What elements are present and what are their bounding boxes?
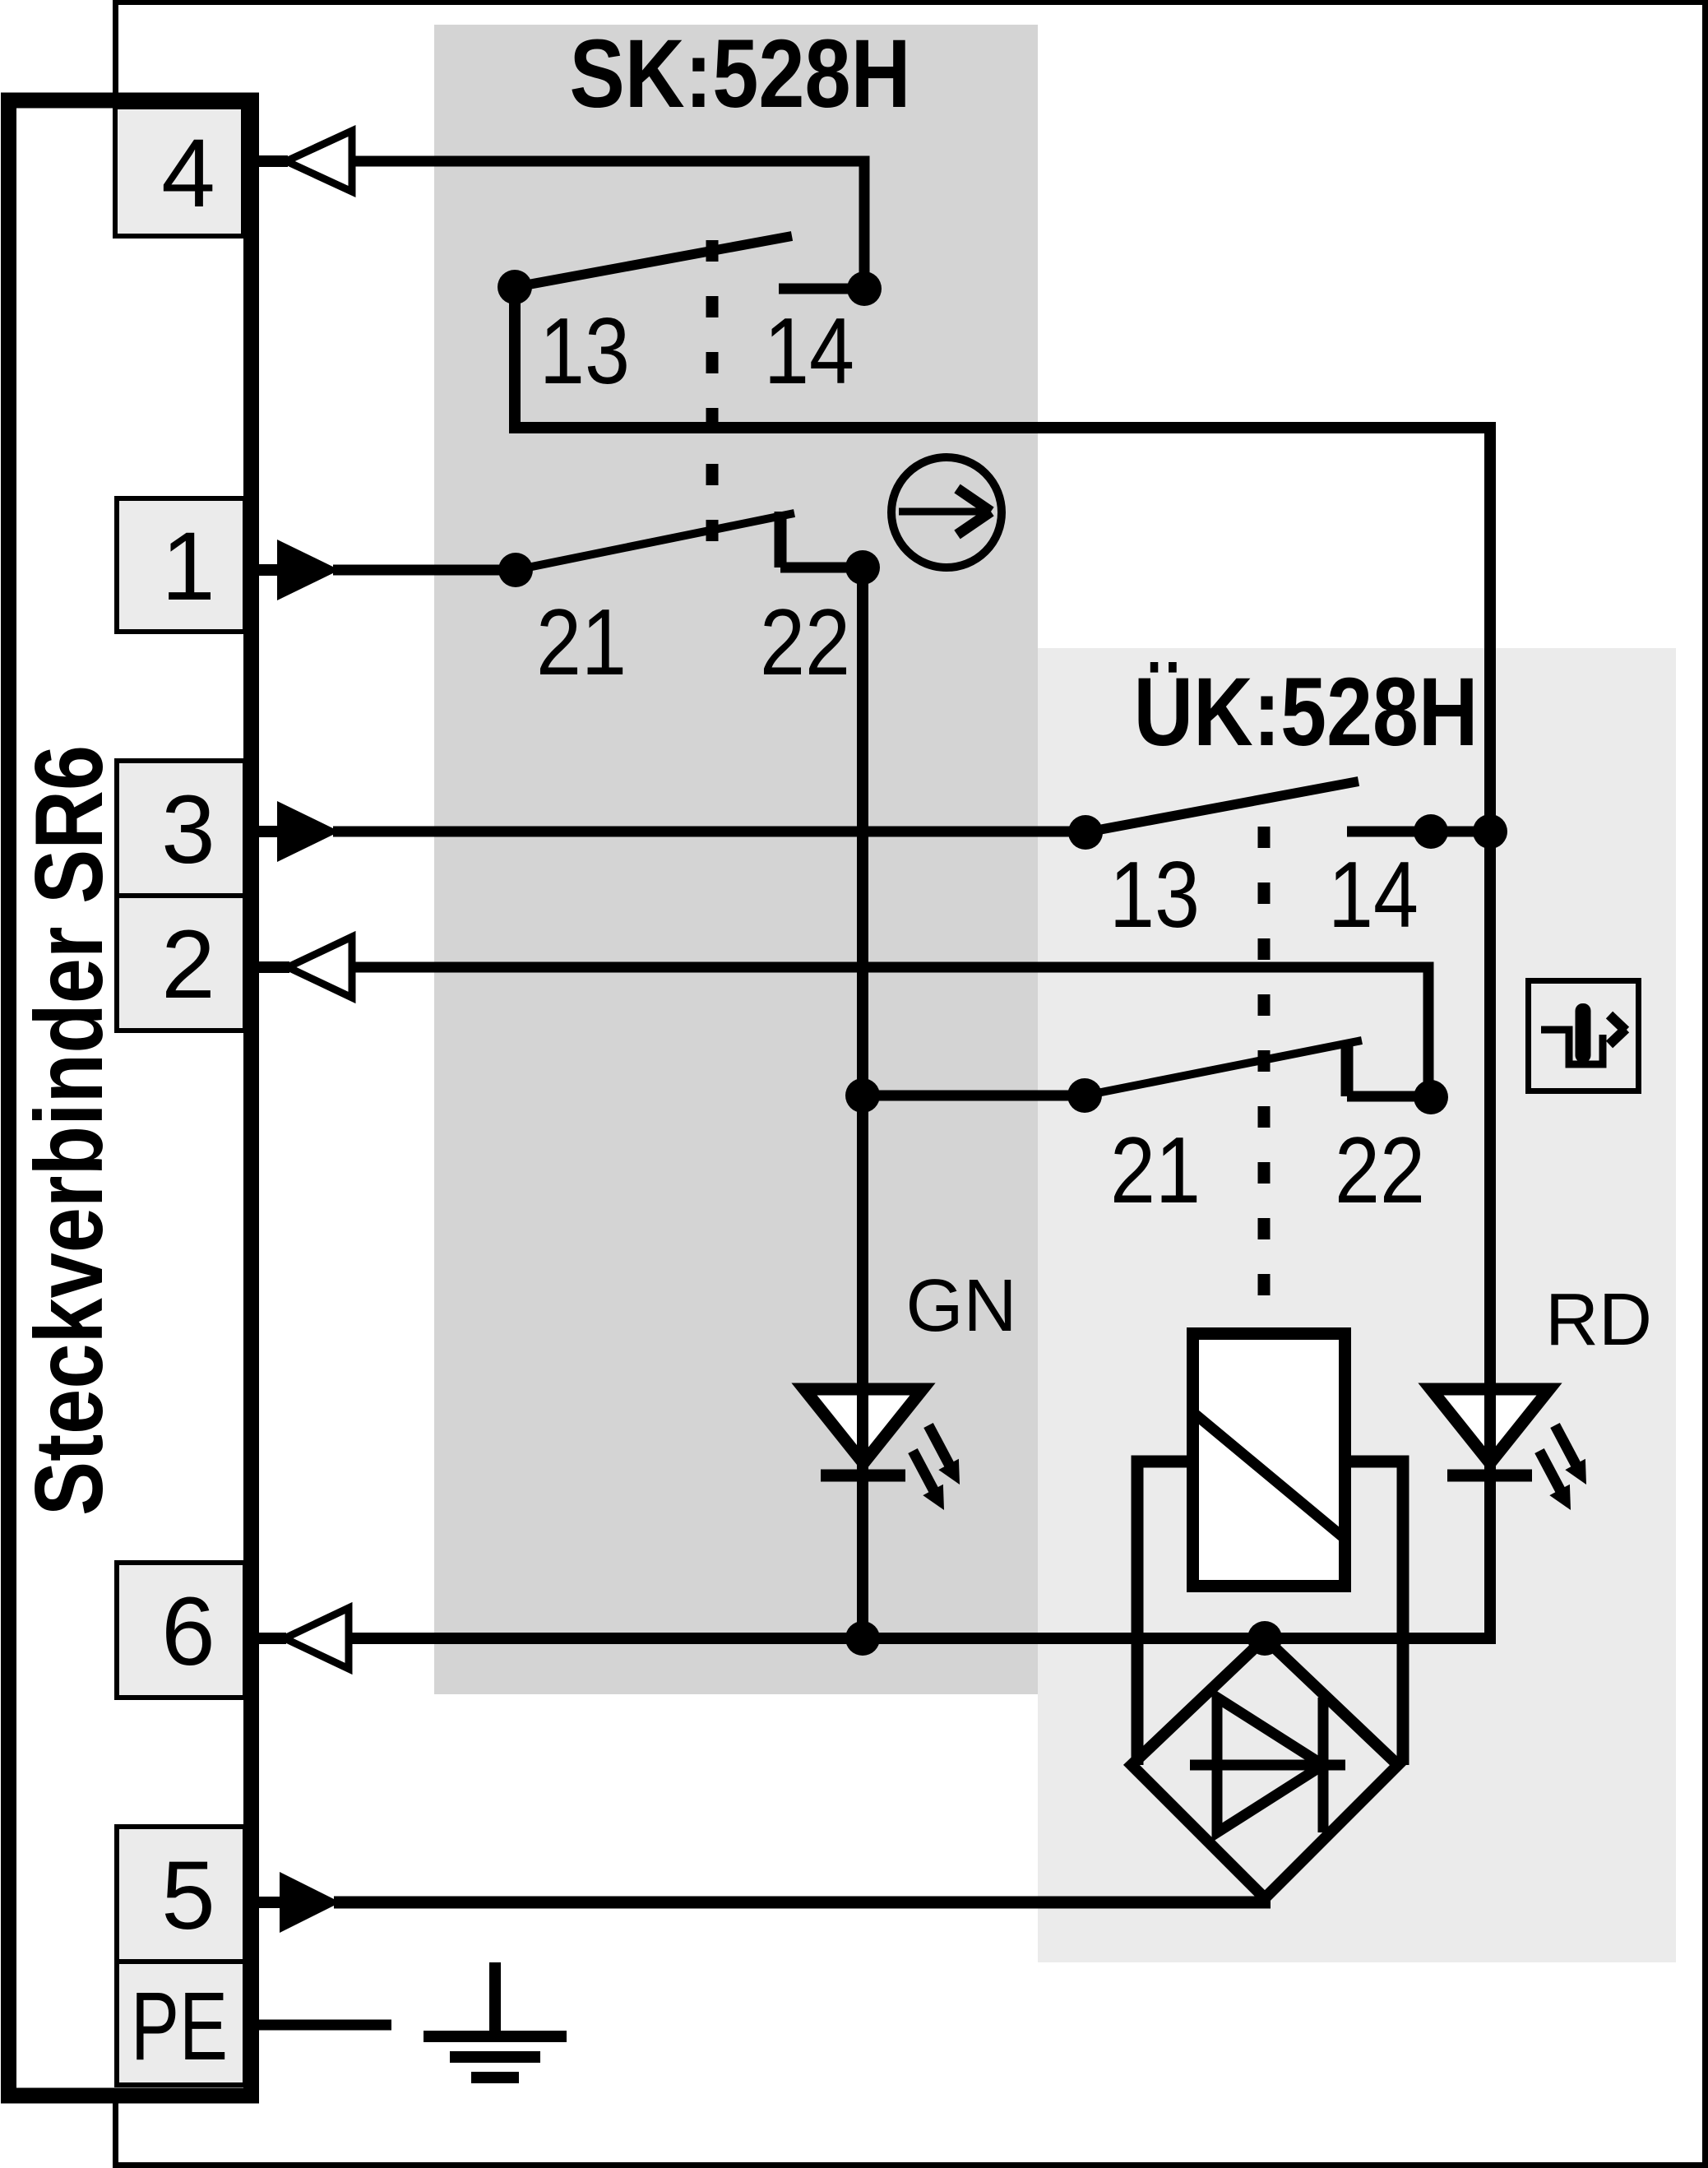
solenoid yoke <box>1137 1462 1403 1765</box>
svg-text:SK:528H: SK:528H <box>570 20 911 128</box>
node UK 13 <box>1068 815 1103 850</box>
bridge rectifier diamond <box>1132 1638 1398 1898</box>
LED GN <box>804 1389 960 1510</box>
UK contact 21-22 (NC) blade <box>1085 1040 1362 1096</box>
wire UK14 to right rail <box>1431 827 1490 837</box>
wire RD LED to pin6 wire <box>1484 1389 1496 1638</box>
node UK 21 <box>1067 1078 1102 1113</box>
wire pin1 to SK 21 <box>333 565 516 576</box>
pin 1 input arrow (filled) <box>257 540 340 600</box>
wire pin5 to bridge bottom <box>334 1897 1271 1909</box>
wire SK13 down, across and down right rail to RD LED <box>515 287 1490 1392</box>
svg-text:22: 22 <box>760 591 850 695</box>
svg-text:14: 14 <box>764 299 854 404</box>
svg-text:2: 2 <box>161 910 215 1019</box>
pin 2 output arrow (open) <box>257 937 352 998</box>
wire pin4 to SK contact 14 <box>349 161 864 289</box>
bridge diode <box>1190 1698 1345 1832</box>
svg-text:21: 21 <box>536 591 627 695</box>
svg-text:ÜK:528H: ÜK:528H <box>1134 658 1479 767</box>
pin 3 input arrow (filled) <box>257 801 340 862</box>
mechanical link SK (dashed) <box>706 240 719 541</box>
interlock solenoid coil <box>1193 1334 1345 1587</box>
actuation direction icon (circle with arrow) <box>891 457 1002 567</box>
node rail junction <box>1473 814 1507 849</box>
svg-text:RD: RD <box>1545 1279 1652 1361</box>
node bridge top at pin6 wire <box>1247 1621 1282 1656</box>
svg-text:13: 13 <box>539 299 630 404</box>
svg-text:13: 13 <box>1109 843 1200 947</box>
node SK 13 <box>498 270 532 304</box>
UK contact 13-14 (NO) blade <box>1085 781 1359 832</box>
svg-text:1: 1 <box>161 512 215 621</box>
node on GN branch <box>845 1078 880 1113</box>
pin box 2 <box>117 896 245 1031</box>
wire pin2 to UK 22 <box>349 967 1428 1099</box>
wire pin6 across <box>345 1633 1496 1644</box>
node GN at pin6 wire <box>845 1621 880 1656</box>
svg-text:22: 22 <box>1335 1119 1425 1223</box>
ground symbol <box>424 1962 567 2078</box>
pin box 3 <box>117 761 245 896</box>
UEK:528H shaded zone <box>1038 648 1676 1962</box>
PE stub wire <box>257 2020 391 2031</box>
UK 22 fixed stub <box>1347 1091 1431 1102</box>
pin box 4 <box>115 107 243 236</box>
svg-text:3: 3 <box>161 776 215 884</box>
wire pin3 to UK 13 <box>333 827 1085 837</box>
mechanical link UK (dashed) <box>1258 827 1271 1297</box>
svg-text:14: 14 <box>1328 843 1419 947</box>
pin 4 output arrow (open) <box>257 131 352 192</box>
UK 14 fixed stub <box>1347 827 1431 837</box>
pin 5 input arrow (filled) <box>257 1872 340 1933</box>
SK:528H shaded zone <box>434 25 1038 1694</box>
svg-text:5: 5 <box>161 1841 215 1950</box>
SK contact 13-14 (NO) blade <box>515 236 792 287</box>
magnet actuation icon (square) <box>1529 981 1639 1091</box>
SK 14 fixed stub <box>779 284 864 294</box>
svg-text:Steckverbinder SR6: Steckverbinder SR6 <box>15 745 123 1516</box>
UK 22 riser <box>1341 1041 1354 1096</box>
svg-text:GN: GN <box>906 1265 1017 1347</box>
node SK 14 <box>847 271 882 306</box>
LED RD <box>1431 1389 1586 1510</box>
node SK 21 <box>498 553 533 587</box>
svg-text:PE: PE <box>131 1972 228 2081</box>
node SK 22 <box>845 550 880 585</box>
SK contact 21-22 (NC) blade <box>516 513 794 570</box>
svg-text:21: 21 <box>1110 1119 1201 1223</box>
node UK 14 <box>1414 814 1448 849</box>
SK 22 fixed stub <box>780 563 863 573</box>
wire SK22 down to GN <box>857 567 868 1392</box>
pin box 5 <box>117 1827 245 1962</box>
svg-text:6: 6 <box>161 1577 215 1686</box>
connector body Steckverbinder SR6 <box>9 100 252 2096</box>
pin box 6 <box>117 1563 245 1698</box>
wire GN LED to pin6 wire <box>857 1389 868 1638</box>
SK 22 riser <box>775 512 787 567</box>
svg-text:4: 4 <box>161 119 215 228</box>
wire GN branch to UK 21 <box>863 1091 1085 1101</box>
pin 6 output arrow (open) <box>257 1608 349 1669</box>
pin box PE <box>117 1962 245 2085</box>
node UK 22 <box>1414 1080 1448 1114</box>
pin box 1 <box>117 498 245 632</box>
